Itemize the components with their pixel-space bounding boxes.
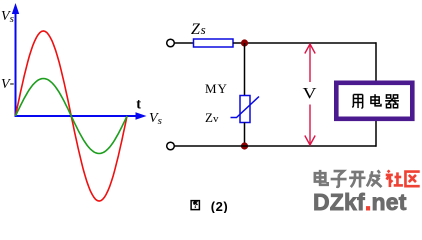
svg-text:(2): (2) <box>211 199 228 213</box>
voltage arrow V (double headed) <box>305 44 315 145</box>
red sine wave (input) <box>16 31 128 201</box>
svg-text:Vs: Vs <box>1 9 14 25</box>
load box frame <box>336 83 412 119</box>
bottom wire <box>175 145 377 147</box>
load label char 电 <box>371 94 381 106</box>
watermark char 电 <box>315 170 328 185</box>
varistor diagonal stroke <box>231 97 260 118</box>
svg-text:DZkf.net: DZkf.net <box>313 189 407 213</box>
wire: junction down to varistor <box>244 43 246 95</box>
svg-text:Zs: Zs <box>191 21 206 38</box>
node junction (top) <box>241 39 248 46</box>
svg-text:MY: MY <box>205 81 228 96</box>
wire: terminal to Zs <box>175 42 194 44</box>
load label char 用 <box>352 95 362 109</box>
svg-text:Vs: Vs <box>149 111 162 127</box>
varistor Zv body <box>240 96 250 123</box>
svg-text:V-: V- <box>1 76 15 92</box>
resistor Zs <box>194 39 234 47</box>
wire: Zs to right corner <box>233 42 377 44</box>
waveform horizontal axis t <box>15 112 147 119</box>
green sine wave (clamped output) <box>16 79 128 154</box>
load label char 器 <box>385 95 399 108</box>
input terminal (bottom) <box>167 142 175 150</box>
svg-text:Zv: Zv <box>205 110 219 125</box>
svg-text:t: t <box>136 97 141 113</box>
watermark char 社 <box>386 170 403 187</box>
watermark char 子 <box>331 171 347 187</box>
waveform vertical axis Vs <box>12 3 19 116</box>
input terminal (top) <box>167 39 175 47</box>
wire: load bottom to bottom wire <box>375 120 377 147</box>
watermark char 开 <box>349 172 365 188</box>
wire: varistor to bottom junction <box>244 123 246 147</box>
wire: top right corner down to load <box>375 42 377 81</box>
caption char 图 <box>191 201 199 210</box>
node junction (bottom) <box>241 142 248 149</box>
watermark char 区 <box>405 172 419 187</box>
watermark char 发 <box>367 170 382 187</box>
svg-text:V: V <box>303 85 318 102</box>
